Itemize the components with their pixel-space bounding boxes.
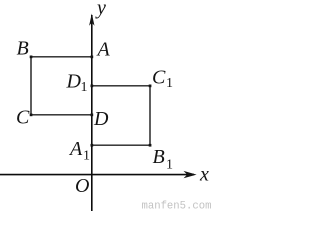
y-axis (89, 14, 94, 212)
label B1 (153, 146, 174, 173)
node C1 vertex dot (149, 85, 152, 88)
node C vertex dot (30, 114, 33, 117)
svg-text:D: D (66, 71, 82, 93)
svg-text:B: B (17, 38, 29, 60)
svg-text:B: B (153, 146, 165, 168)
node D1 vertex dot (91, 85, 94, 88)
svg-text:C: C (152, 67, 166, 89)
svg-text:y: y (95, 0, 106, 19)
svg-text:O: O (75, 175, 89, 197)
node B vertex dot (30, 56, 33, 59)
svg-text:1: 1 (83, 149, 90, 164)
svg-text:D: D (93, 108, 109, 130)
node A vertex dot (91, 56, 94, 59)
svg-text:1: 1 (166, 76, 173, 91)
label C1 (152, 67, 173, 92)
label D1 (66, 71, 88, 96)
svg-text:1: 1 (166, 158, 173, 173)
wire: square A1B1C1D1 right edge C1-B1 (149, 86, 151, 145)
label A1 (68, 138, 90, 164)
svg-text:A: A (68, 138, 83, 160)
node D vertex dot (91, 114, 94, 117)
node B1 vertex dot (149, 144, 152, 147)
node A1 vertex dot (91, 144, 94, 147)
svg-text:C: C (16, 107, 30, 129)
svg-text:A: A (96, 39, 111, 61)
svg-text:x: x (199, 164, 209, 186)
wire: square ABCD bottom edge C-D (31, 114, 92, 116)
svg-text:1: 1 (81, 80, 88, 95)
wire: square ABCD left edge B-C (30, 57, 32, 115)
wire: square A1B1C1D1 top edge D1-C1 (92, 85, 150, 87)
x-axis (0, 171, 197, 178)
svg-text:manfen5.com: manfen5.com (142, 201, 212, 213)
wire: square A1B1C1D1 bottom edge A1-B1 (92, 144, 150, 146)
wire: square ABCD top edge B-A (31, 56, 92, 58)
